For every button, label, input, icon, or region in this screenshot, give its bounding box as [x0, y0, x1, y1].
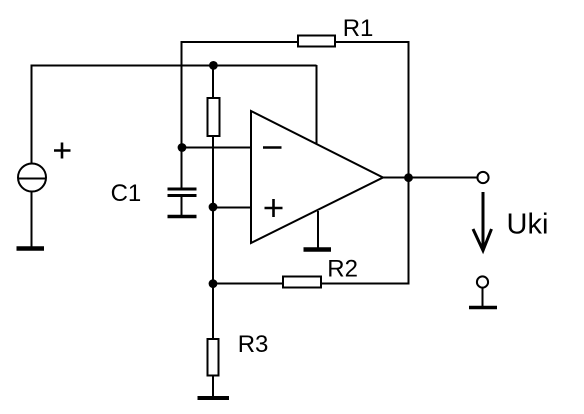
ground bar lower terminal [469, 306, 497, 310]
ground bar op-amp [304, 247, 332, 251]
output terminal circle [477, 172, 488, 183]
op-amp minus sign [263, 146, 282, 149]
wire source bottom lead [31, 192, 33, 248]
current source chord [18, 178, 47, 180]
resistor R3 [208, 339, 219, 376]
wire lower terminal stub [482, 288, 484, 306]
svg-text:R1: R1 [343, 15, 374, 42]
wire non-inverting input [213, 207, 251, 209]
resistor R2 [283, 277, 321, 288]
ground bar below C1 [168, 215, 197, 219]
svg-text:C1: C1 [111, 180, 142, 207]
current source I1 [18, 164, 46, 192]
wire center vertical through R and R3 [212, 65, 214, 398]
wire source to node A horizontal [31, 65, 317, 67]
arrow Uki [473, 192, 492, 251]
node non-inverting junction dot [209, 203, 218, 212]
wire output [383, 177, 477, 179]
node R2/R3 junction dot [209, 279, 218, 288]
svg-text:Uki: Uki [507, 208, 549, 240]
plus sign at source [54, 143, 71, 159]
wire R2 feedback bottom [213, 283, 408, 285]
lower terminal circle [477, 276, 488, 287]
wire top feedback left [181, 41, 298, 43]
svg-text:R3: R3 [238, 331, 269, 358]
op-amp U1 [251, 111, 383, 243]
wire top feedback right [335, 41, 409, 43]
wire left vertical to inverting node [181, 41, 183, 188]
node output junction dot [404, 173, 413, 182]
resistor R1 [298, 36, 335, 47]
wire source left vertical [31, 65, 33, 163]
op-amp plus sign [265, 199, 283, 217]
node A junction dot [209, 61, 218, 70]
op-amp V- pin wire [317, 211, 319, 249]
wire right vertical (R1/output/R2) [408, 41, 410, 285]
op-amp V+ pin wire [316, 65, 318, 144]
node inverting junction dot [178, 143, 187, 152]
ground bar below source [17, 246, 45, 250]
svg-text:R2: R2 [327, 255, 358, 282]
capacitor C1 [168, 189, 197, 215]
ground bar below R3 [198, 396, 230, 400]
wire inverting input [182, 147, 252, 149]
resistor R4 (unlabeled vertical) [208, 98, 220, 136]
